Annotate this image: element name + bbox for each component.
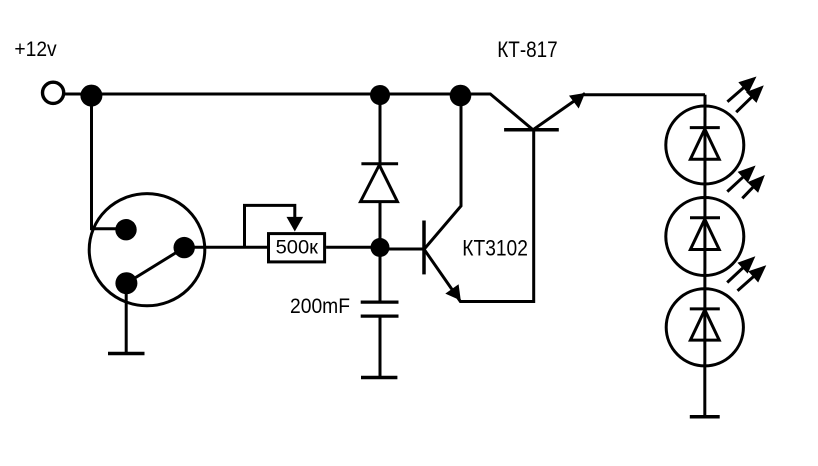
- svg-text:200mF: 200mF: [290, 294, 350, 318]
- svg-text:КТ3102: КТ3102: [462, 236, 528, 261]
- svg-text:КТ-817: КТ-817: [497, 37, 557, 62]
- svg-text:+12v: +12v: [14, 38, 57, 61]
- svg-text:500к: 500к: [276, 237, 319, 259]
